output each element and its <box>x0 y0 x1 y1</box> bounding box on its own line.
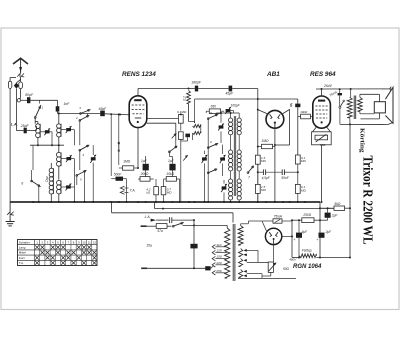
wire mid row <box>30 144 64 146</box>
svg-text:2μF: 2μF <box>331 214 339 218</box>
svg-text:650: 650 <box>211 105 217 109</box>
trimmer CT2 <box>66 128 71 131</box>
wire antenna to C1 <box>21 99 27 101</box>
heater leads <box>247 249 258 251</box>
power transformer primary <box>225 228 230 278</box>
svg-text:T.A.: T.A. <box>19 261 24 265</box>
node B+ line <box>257 98 259 100</box>
coil L5 <box>57 180 62 185</box>
svg-text:50Ω: 50Ω <box>320 143 326 147</box>
trimmer CV2 <box>202 157 207 160</box>
switch S13 <box>339 106 341 108</box>
resistor R13 0,1M <box>295 184 300 193</box>
wire IF top <box>216 112 239 114</box>
heater winding 3 <box>239 270 243 278</box>
trimmer CT1 <box>45 130 50 133</box>
wire V1 right b <box>147 122 176 124</box>
HV winding <box>238 226 243 246</box>
capacitor C13 <box>297 99 299 104</box>
resistor R1 0,2M <box>187 91 191 104</box>
node G2 <box>119 114 121 116</box>
wire HV to fuse <box>247 221 249 224</box>
capacitor C10 <box>185 134 190 138</box>
wire speaker bottom <box>340 123 388 125</box>
ground bus <box>10 201 320 203</box>
capacitor C4 25pF <box>24 128 27 134</box>
svg-text:MΩ: MΩ <box>301 188 306 192</box>
svg-text:10kΩ: 10kΩ <box>166 172 174 176</box>
switch S2 <box>79 120 81 122</box>
tube V3 RES964 <box>313 96 331 128</box>
ground symbol <box>9 202 11 212</box>
volume pot zigzag <box>193 124 201 127</box>
svg-text:45pF: 45pF <box>225 91 234 95</box>
svg-text:125: 125 <box>216 249 221 253</box>
switch S7 <box>118 150 120 152</box>
tube V1 RENS1234 <box>129 96 147 128</box>
antenna terminal <box>17 99 20 102</box>
trimmer CV4 <box>222 186 227 189</box>
bias box V3 <box>313 127 317 132</box>
B+ node wire <box>319 202 321 258</box>
svg-text:MΩ: MΩ <box>301 159 306 163</box>
fuse F2 <box>8 81 11 88</box>
svg-text:110: 110 <box>216 243 221 247</box>
field coil <box>292 257 299 259</box>
svg-text:Schalter: Schalter <box>19 240 30 244</box>
secondary loop <box>360 93 380 95</box>
switch table <box>18 240 98 266</box>
svg-text:50nF: 50nF <box>114 172 123 176</box>
wire grid line <box>58 113 101 115</box>
wire x194 drop <box>193 220 195 268</box>
svg-text:AB1: AB1 <box>266 71 280 78</box>
svg-text:150: 150 <box>216 255 221 259</box>
capacitor C19 <box>319 233 325 238</box>
svg-text:4,5μF: 4,5μF <box>262 176 271 180</box>
resistor R5 0,7M <box>161 187 166 195</box>
svg-text:460V: 460V <box>289 258 297 262</box>
wire plate supply <box>316 88 391 90</box>
mains tick <box>141 225 147 227</box>
wire LA <box>16 130 23 132</box>
svg-text:1μF: 1μF <box>168 159 175 163</box>
trimmer pot arrow <box>172 133 177 138</box>
resistor R11 1,5M <box>255 184 260 193</box>
variable cap CV1 <box>91 157 96 160</box>
svg-text:L.A.: L.A. <box>11 122 18 126</box>
capacitor C7 50nF <box>116 177 124 181</box>
heater rail <box>111 202 113 213</box>
svg-text:Körting: Körting <box>358 128 365 154</box>
wire mains bottom <box>141 267 147 269</box>
svg-text:15a: 15a <box>146 244 152 248</box>
heater winding 2 <box>239 259 243 267</box>
hum pot 50 <box>268 262 273 272</box>
svg-text:0,1MΩ: 0,1MΩ <box>177 110 187 114</box>
bottom wire <box>316 257 350 259</box>
capacitor C1 80pF <box>27 97 30 103</box>
trimmer CT6 <box>226 109 231 112</box>
resistor R3 20k <box>140 177 150 182</box>
svg-text:1MΩ: 1MΩ <box>261 139 269 143</box>
switch S4 <box>79 149 81 151</box>
switch S5 <box>76 175 78 177</box>
resistor R15 250 <box>292 219 302 221</box>
tube V2 AB1 <box>266 110 284 128</box>
wire RGN right <box>282 235 292 237</box>
tube V4 RGN1064 <box>265 228 281 244</box>
svg-text:+: + <box>293 238 295 242</box>
svg-text:250Ω: 250Ω <box>302 213 311 217</box>
svg-text:50Ω: 50Ω <box>283 267 290 271</box>
wire AB1 right loop <box>283 109 290 113</box>
wire to AB1 line <box>194 99 196 123</box>
svg-text:220: 220 <box>215 261 221 265</box>
IF T3 left winding <box>229 179 233 183</box>
resistor R14 5k <box>320 207 334 209</box>
trimmer CT4 <box>66 185 71 188</box>
svg-text:2μF: 2μF <box>325 230 333 234</box>
resistor R10 1,5M <box>255 155 260 164</box>
svg-text:20kΩ: 20kΩ <box>140 172 149 176</box>
oscillator coil L4 <box>49 168 53 172</box>
svg-text:RGN 1064: RGN 1064 <box>293 264 322 270</box>
pot wiper arrow <box>183 155 188 160</box>
resistor R12 0,1M <box>295 155 300 164</box>
wire AB1 left <box>258 110 267 114</box>
wire V1 right a <box>147 118 181 120</box>
capacitor C16 <box>190 244 197 249</box>
trimmer CT3 <box>66 157 71 160</box>
fuse F3 75mA <box>339 89 341 93</box>
svg-text:1nF: 1nF <box>64 102 71 106</box>
svg-text:12: 12 <box>93 240 97 244</box>
svg-text:10: 10 <box>82 240 86 244</box>
svg-text:7: 7 <box>248 176 250 180</box>
wire V1 anode <box>137 89 139 96</box>
svg-text:MΩ: MΩ <box>261 188 266 192</box>
output transformer secondary <box>358 97 363 111</box>
coil L3 <box>57 152 62 157</box>
capacitor C17 <box>327 208 329 212</box>
IF T3 right winding <box>237 179 241 183</box>
svg-text:264V: 264V <box>323 84 333 88</box>
svg-text:Trixor R 2200 WL: Trixor R 2200 WL <box>361 156 376 245</box>
svg-text:250: 250 <box>215 269 221 273</box>
resistor R16 650 <box>209 109 220 114</box>
B+ rail <box>154 202 156 209</box>
svg-text:Kurz: Kurz <box>19 256 26 260</box>
switch S9 <box>207 118 209 120</box>
node G1 <box>110 113 112 115</box>
wire AB1 pin <box>274 128 276 202</box>
LA arrow <box>151 219 157 222</box>
wire x35 drop <box>33 118 35 146</box>
switch S10 <box>207 147 209 149</box>
switch S12 7 <box>247 172 249 174</box>
svg-text:5kΩ: 5kΩ <box>334 202 340 206</box>
IF T2 left winding <box>229 150 233 154</box>
grid stopper <box>301 114 311 119</box>
switch S11 <box>207 172 209 174</box>
svg-text:57a: 57a <box>157 229 163 233</box>
pickup TA <box>120 186 124 190</box>
tap feed <box>211 266 214 268</box>
resistor R7 0,1M <box>178 115 183 124</box>
power transformer core <box>232 224 234 281</box>
capacitor C15 <box>169 217 171 223</box>
svg-text:Mittel: Mittel <box>19 251 27 255</box>
heater winding 1 <box>239 249 243 257</box>
wire x33 drop <box>32 145 34 170</box>
lightning arrester <box>16 80 20 83</box>
wire x111 <box>110 114 112 176</box>
svg-text:Lang: Lang <box>19 246 26 250</box>
fuse 57a <box>147 225 157 227</box>
tap arrows <box>212 245 215 249</box>
capacitor C6 45pF <box>229 86 233 92</box>
resistor R4 4,2k <box>154 187 159 195</box>
spark gap <box>17 74 20 78</box>
trimmer CV3 <box>220 157 225 160</box>
svg-text:0,2: 0,2 <box>182 96 186 101</box>
IF T1 right winding <box>237 118 241 122</box>
svg-text:45pF: 45pF <box>99 107 108 111</box>
svg-text:180pF: 180pF <box>191 81 202 85</box>
hum pot leads <box>270 261 272 263</box>
wire end hook <box>390 87 391 91</box>
capacitor C3 45pF <box>100 111 105 117</box>
capacitor C5 180pF <box>189 88 195 90</box>
antenna <box>13 58 28 64</box>
IF T1 left winding <box>229 118 233 122</box>
svg-text:1MΩ: 1MΩ <box>123 160 131 164</box>
svg-text:10kΩ: 10kΩ <box>300 110 308 114</box>
output transformer primary <box>350 89 352 97</box>
switch S1 <box>39 100 41 103</box>
svg-text:MΩ: MΩ <box>261 159 266 163</box>
svg-text:75mA: 75mA <box>274 214 282 218</box>
svg-text:1μF: 1μF <box>141 159 148 163</box>
fuse F4 75mA <box>262 220 273 222</box>
resistor R9 1M <box>261 144 272 148</box>
svg-text:Osz.: Osz. <box>45 175 49 182</box>
trimmer CT5 <box>219 125 224 128</box>
switch S3 <box>80 113 82 115</box>
switch S8 <box>169 151 171 153</box>
svg-text:25pF: 25pF <box>20 124 30 128</box>
coil L1 <box>36 124 41 129</box>
resistor R8 <box>178 132 183 140</box>
svg-text:T.A.: T.A. <box>130 188 136 192</box>
capacitor C18 <box>298 220 300 232</box>
svg-text:11: 11 <box>88 240 91 244</box>
svg-text:Feldsp.: Feldsp. <box>302 248 313 252</box>
capacitor C8 1uF <box>143 164 149 171</box>
output transformer core <box>353 96 355 120</box>
wire to C2 <box>57 100 59 106</box>
capacitor C11 <box>258 171 264 173</box>
resistor R6 10k <box>166 177 176 182</box>
wire V3 anode <box>321 89 323 96</box>
svg-text:RES 964: RES 964 <box>310 71 336 78</box>
svg-text:50nF: 50nF <box>281 176 289 180</box>
svg-text:RENS 1234: RENS 1234 <box>122 71 156 78</box>
IF core <box>233 116 235 196</box>
wire primary top <box>226 225 228 228</box>
IF T2 right winding <box>237 150 241 154</box>
coil L2 <box>57 124 61 128</box>
tube V1 legs <box>137 128 139 168</box>
svg-text:100pF: 100pF <box>231 103 241 107</box>
svg-text:80pF: 80pF <box>25 93 34 97</box>
resistor R2 1M <box>123 166 134 170</box>
antenna arrow <box>19 67 22 73</box>
svg-text:6: 6 <box>21 181 23 185</box>
node spk <box>349 124 351 257</box>
svg-text:L.A.: L.A. <box>145 215 151 219</box>
capacitor C9 1uF <box>169 164 175 171</box>
fuse F1 <box>19 82 23 89</box>
mains switch <box>172 225 174 227</box>
capacitor C2 1nF <box>56 106 60 111</box>
svg-text:+: + <box>316 238 318 242</box>
capacitor C12 <box>281 169 283 175</box>
switch S6 <box>31 180 33 182</box>
speaker cone <box>385 87 393 123</box>
wire coil A top <box>34 118 36 123</box>
speaker driver <box>374 102 385 113</box>
svg-text:MΩ: MΩ <box>167 191 172 195</box>
svg-text:2: 2 <box>75 116 78 120</box>
